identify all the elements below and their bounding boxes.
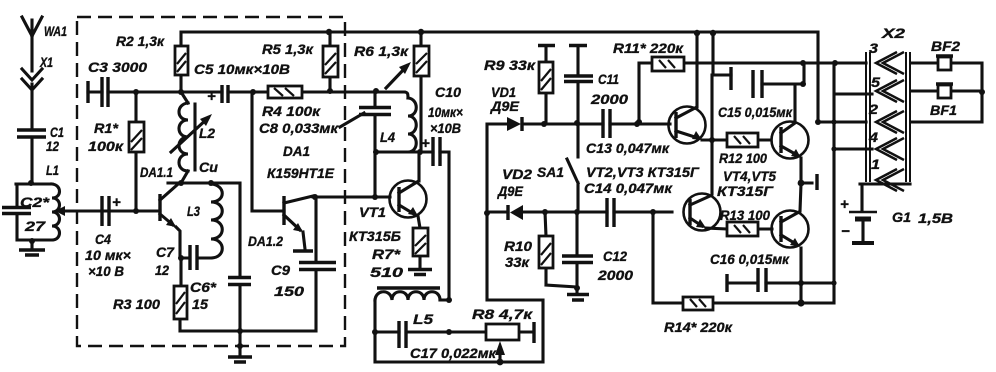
svg-text:R7*: R7* bbox=[372, 246, 401, 262]
svg-text:3: 3 bbox=[869, 40, 878, 56]
svg-text:R10: R10 bbox=[504, 238, 532, 254]
svg-text:C2*: C2* bbox=[20, 194, 50, 210]
svg-text:КТ315Г: КТ315Г bbox=[717, 183, 775, 199]
svg-text:VD2: VD2 bbox=[502, 166, 532, 182]
svg-text:R13 100: R13 100 bbox=[720, 207, 770, 223]
svg-text:C9: C9 bbox=[271, 262, 290, 278]
svg-text:BF2: BF2 bbox=[931, 38, 960, 54]
svg-text:1: 1 bbox=[871, 156, 880, 172]
svg-text:C13 0,047мк: C13 0,047мк bbox=[586, 140, 670, 156]
svg-text:2: 2 bbox=[868, 101, 878, 117]
svg-text:L4: L4 bbox=[380, 129, 395, 145]
svg-text:VT2,VT3 КТ315Г: VT2,VT3 КТ315Г bbox=[586, 164, 700, 180]
svg-text:−: − bbox=[841, 223, 850, 240]
svg-text:SA1: SA1 bbox=[537, 164, 564, 180]
svg-text:C16 0,015мк: C16 0,015мк bbox=[710, 251, 790, 267]
svg-text:G1: G1 bbox=[892, 209, 911, 225]
svg-text:10 мк×: 10 мк× bbox=[85, 247, 131, 263]
svg-text:2000: 2000 bbox=[597, 267, 633, 283]
svg-text:R4 100к: R4 100к bbox=[262, 103, 321, 119]
svg-text:+: + bbox=[112, 194, 121, 211]
svg-text:C14 0,047мк: C14 0,047мк bbox=[584, 180, 673, 196]
svg-text:R8 4,7к: R8 4,7к bbox=[472, 306, 533, 322]
svg-text:DA1.1: DA1.1 bbox=[140, 164, 173, 180]
svg-text:DA1.2: DA1.2 bbox=[248, 233, 283, 249]
svg-text:X1: X1 bbox=[39, 54, 53, 70]
svg-text:R1*: R1* bbox=[94, 120, 119, 136]
svg-text:L2: L2 bbox=[199, 125, 215, 141]
svg-text:Д9Е: Д9Е bbox=[497, 183, 524, 199]
svg-text:R14* 220к: R14* 220к bbox=[664, 319, 733, 335]
svg-text:К159НТ1Е: К159НТ1Е bbox=[267, 165, 335, 181]
svg-text:R12 100: R12 100 bbox=[719, 150, 767, 166]
svg-text:150: 150 bbox=[274, 283, 304, 299]
svg-text:WA1: WA1 bbox=[44, 23, 67, 39]
svg-text:X2: X2 bbox=[881, 25, 906, 41]
svg-text:VT1: VT1 bbox=[359, 204, 386, 220]
svg-text:×10 В: ×10 В bbox=[88, 263, 124, 279]
svg-text:L1: L1 bbox=[46, 162, 59, 178]
svg-text:10мк×: 10мк× bbox=[428, 104, 463, 120]
svg-text:R2 1,3к: R2 1,3к bbox=[116, 33, 165, 49]
svg-text:C3 3000: C3 3000 bbox=[88, 59, 147, 75]
svg-text:5: 5 bbox=[871, 74, 880, 90]
svg-text:C11: C11 bbox=[598, 71, 619, 87]
svg-text:2000: 2000 bbox=[590, 91, 628, 107]
svg-text:4: 4 bbox=[868, 129, 878, 145]
svg-text:33к: 33к bbox=[505, 254, 530, 270]
svg-text:C12: C12 bbox=[603, 248, 627, 264]
svg-text:27: 27 bbox=[24, 218, 47, 234]
svg-text:C6*: C6* bbox=[190, 279, 217, 295]
svg-text:C8 0,033мк: C8 0,033мк bbox=[259, 120, 339, 136]
svg-text:L3: L3 bbox=[187, 203, 200, 219]
svg-text:C7: C7 bbox=[156, 244, 175, 260]
svg-text:DA1: DA1 bbox=[283, 143, 310, 159]
svg-text:C10: C10 bbox=[435, 84, 461, 100]
svg-text:C15 0,015мк: C15 0,015мк bbox=[718, 104, 793, 120]
svg-text:100к: 100к bbox=[88, 138, 124, 154]
svg-text:×10В: ×10В bbox=[430, 120, 461, 136]
svg-text:12: 12 bbox=[46, 138, 59, 154]
svg-text:R3 100: R3 100 bbox=[113, 296, 160, 312]
svg-text:Cu: Cu bbox=[199, 159, 218, 175]
svg-text:+: + bbox=[421, 135, 430, 152]
svg-text:510: 510 bbox=[370, 264, 403, 280]
svg-text:R11* 220к: R11* 220к bbox=[613, 40, 684, 56]
svg-text:C5 10мк×10В: C5 10мк×10В bbox=[194, 61, 290, 77]
svg-text:C17 0,022мк: C17 0,022мк bbox=[410, 345, 497, 361]
svg-text:+: + bbox=[840, 196, 849, 213]
svg-text:L5: L5 bbox=[413, 311, 433, 327]
svg-text:1,5В: 1,5В bbox=[918, 210, 953, 226]
svg-text:Д9Е: Д9Е bbox=[490, 98, 520, 114]
svg-text:BF1: BF1 bbox=[930, 102, 957, 118]
svg-text:R6 1,3к: R6 1,3к bbox=[354, 43, 409, 59]
svg-text:R9 33к: R9 33к bbox=[484, 57, 536, 73]
svg-text:+: + bbox=[207, 88, 216, 105]
svg-text:R5 1,3к: R5 1,3к bbox=[262, 41, 314, 57]
svg-text:15: 15 bbox=[192, 296, 208, 312]
svg-text:VT4,VT5: VT4,VT5 bbox=[723, 168, 776, 184]
svg-text:КТ315Б: КТ315Б bbox=[349, 228, 401, 244]
svg-text:C4: C4 bbox=[95, 231, 111, 247]
svg-text:12: 12 bbox=[155, 262, 169, 278]
